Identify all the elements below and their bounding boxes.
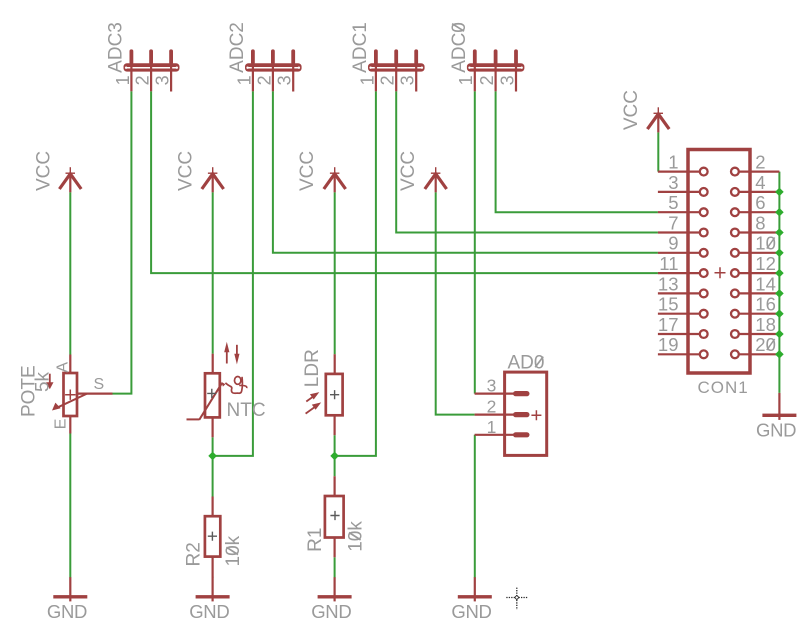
CON1 pin circles row 9 — [700, 330, 708, 338]
svg-text:ADC0: ADC0 — [449, 22, 470, 73]
ADC1 header body — [368, 63, 425, 71]
potentiometer POTE 5k — [18, 355, 112, 434]
R2 bottom pin line — [212, 556, 214, 577]
LDR origin cross — [330, 390, 339, 399]
R2 origin cross — [208, 532, 217, 541]
svg-text:S: S — [94, 376, 105, 393]
svg-text:1: 1 — [357, 75, 377, 85]
wire R1 bottom to GND — [334, 557, 336, 577]
CON1 pin circles row 7 — [700, 290, 708, 298]
ADC2 pin 2 line — [272, 63, 274, 91]
svg-text:VCC: VCC — [33, 151, 54, 191]
CON1 pin 6 line (right) — [738, 211, 779, 213]
power symbol VCC (POTE branch) — [33, 151, 81, 192]
svg-text:VCC: VCC — [398, 151, 419, 191]
junction NTC/R2/ADC2 node — [208, 452, 217, 461]
wire VCC to POTE pin A — [69, 192, 71, 354]
CON1 origin cross — [715, 267, 726, 278]
svg-text:1: 1 — [456, 75, 476, 85]
svg-text:2: 2 — [133, 75, 153, 85]
svg-text:GND: GND — [47, 601, 87, 622]
svg-text:1: 1 — [487, 417, 497, 437]
ADC2 pin 1 line — [252, 63, 254, 91]
svg-text:R2: R2 — [183, 542, 204, 566]
connector AD0 — [475, 353, 547, 456]
svg-text:E: E — [52, 419, 69, 430]
svg-text:5k: 5k — [32, 371, 53, 392]
NTC bottom pin line — [212, 417, 214, 438]
junction GND bus at CON1 pin 12 — [775, 269, 784, 278]
CON1 pin 5 line (left) — [658, 211, 700, 213]
junction LDR/R1/ADC1 node — [330, 452, 339, 461]
3-pin header ADC0 — [449, 22, 524, 91]
thermistor NTC — [187, 342, 266, 438]
wire NTC bottom to R2 top through junction — [212, 437, 214, 496]
AD0 pin 2 line and pad — [475, 414, 514, 416]
CON1 pin 12 line (right) — [738, 272, 779, 274]
svg-text:NTC: NTC — [227, 400, 266, 421]
AD0 origin cross — [531, 410, 541, 420]
svg-text:ADC2: ADC2 — [227, 22, 248, 73]
svg-text:19: 19 — [658, 334, 679, 355]
LDR resistor body — [326, 374, 343, 415]
wire ADC2 pin 2 to CON1 pin 9 — [273, 91, 658, 253]
svg-text:CON1: CON1 — [698, 378, 749, 397]
ADC0 header body — [467, 63, 525, 71]
wire LDR bottom to R1 top through junction — [334, 435, 336, 476]
svg-text:15: 15 — [658, 294, 679, 315]
junction GND bus at CON1 pin 14 — [775, 289, 784, 298]
NTC up arrow — [226, 347, 228, 364]
wire ADC1 pin 2 to CON1 pin 7 — [396, 91, 658, 232]
AD0 pin 1 line and pad — [475, 434, 514, 436]
R1 origin cross — [330, 511, 339, 520]
wire ADC0 pin 1 to AD0 pin 3 — [474, 91, 476, 393]
resistor R2 10k — [183, 497, 244, 578]
NTC top pin line — [212, 354, 214, 375]
svg-text:VCC: VCC — [621, 90, 642, 130]
mouse crosshair cursor — [506, 588, 528, 610]
junction GND bus at CON1 pin 10 — [775, 249, 784, 258]
svg-text:GND: GND — [311, 601, 351, 622]
svg-text:5: 5 — [668, 192, 678, 213]
CON1 pin 1 line (left) — [658, 171, 700, 173]
wire ADC0 pin 2 to CON1 pin 5 — [496, 91, 658, 212]
svg-text:2: 2 — [487, 397, 497, 417]
CON1 pin 10 line (right) — [738, 252, 779, 254]
NTC resistor body — [205, 373, 220, 417]
svg-text:4: 4 — [755, 172, 765, 193]
svg-text:8: 8 — [755, 212, 765, 233]
CON1 pin circles row 8 — [700, 310, 708, 318]
CON1 connector body — [688, 150, 750, 374]
wire CON1 pin 2 to GND bus — [778, 172, 780, 393]
POTE adjustment arrow — [49, 374, 51, 384]
power symbol VCC (AD0 branch) — [398, 151, 446, 192]
POTE wiper arrow — [56, 394, 87, 409]
NTC theta temperature symbol — [235, 377, 241, 385]
CON1 pin 18 line (right) — [738, 333, 779, 335]
CON1 pin 16 line (right) — [738, 313, 779, 315]
CON1 pin 15 line (left) — [658, 313, 700, 315]
CON1 pin 20 line (right) — [738, 353, 779, 355]
R1 top pin line — [334, 476, 336, 496]
CON1 pin circles row 5 — [700, 249, 708, 257]
junction GND bus at CON1 pin 16 — [775, 309, 784, 318]
NTC thermistor diagonal stroke — [199, 383, 222, 420]
CON1 pin 7 line (left) — [658, 231, 700, 233]
svg-text:GND: GND — [756, 419, 796, 440]
wire AD0 pin 1 to GND — [474, 435, 476, 578]
wire VCC to CON1 pin 1 — [657, 132, 659, 171]
svg-text:9: 9 — [668, 233, 678, 254]
svg-text:16: 16 — [755, 294, 776, 315]
ADC3 pin 3 line — [170, 63, 172, 92]
svg-text:3: 3 — [497, 75, 517, 85]
svg-text:11: 11 — [659, 253, 678, 274]
power symbol VCC (LDR branch) — [297, 151, 345, 192]
CON1 pin 9 line (left) — [658, 252, 700, 254]
photoresistor LDR — [302, 349, 343, 435]
LDR top pin line — [334, 354, 336, 374]
wire POTE pin S to ADC3 pin 1 — [113, 91, 132, 393]
svg-text:3: 3 — [398, 75, 418, 85]
junction GND bus at CON1 pin 4 — [775, 188, 784, 197]
ground GND (POTE branch) — [47, 577, 87, 622]
wire junction to ADC1 pin 1 — [335, 91, 376, 456]
CON1 pin 17 line (left) — [658, 333, 700, 335]
wire VCC to AD0 pin 2 — [436, 192, 475, 414]
svg-text:14: 14 — [755, 273, 776, 294]
CON1 pin circles row 2 — [700, 188, 708, 196]
svg-text:LDR: LDR — [302, 349, 323, 387]
R1 bottom pin line — [334, 537, 336, 557]
NTC origin cross — [207, 389, 216, 398]
LDR bottom pin line — [334, 415, 336, 436]
ADC1 pin 1 line — [375, 63, 377, 91]
POTE pin S line — [77, 393, 113, 395]
CON1 pin circles row 1 — [700, 168, 708, 176]
ADC2 pin 3 line — [292, 63, 294, 92]
LDR light arrows — [306, 396, 314, 402]
ground GND (R2 branch) — [189, 577, 229, 622]
POTE origin cross — [65, 390, 75, 400]
CON1 pin 19 line (left) — [658, 353, 700, 355]
R2 resistor body — [205, 516, 220, 556]
power symbol VCC (NTC branch) — [176, 151, 224, 192]
svg-text:2: 2 — [755, 152, 765, 173]
ADC3 pin 1 line — [130, 63, 132, 91]
svg-text:20: 20 — [755, 334, 776, 355]
junction GND bus at CON1 pin 18 — [775, 330, 784, 339]
svg-text:R1: R1 — [305, 528, 326, 552]
CON1 pin circles row 4 — [700, 229, 708, 237]
ADC1 pin 3 line — [415, 63, 417, 92]
CON1 pin circles row 3 — [700, 208, 708, 216]
svg-text:12: 12 — [755, 253, 776, 274]
NTC down arrow — [236, 345, 238, 359]
svg-text:18: 18 — [755, 314, 776, 335]
svg-text:1: 1 — [668, 152, 678, 173]
connector CON1 20-pin header — [658, 150, 780, 398]
CON1 pin 14 line (right) — [738, 292, 779, 294]
R1 resistor body — [325, 496, 344, 538]
POTE pin A line — [69, 355, 71, 375]
CON1 pin 11 line (left) — [658, 272, 700, 274]
svg-text:3: 3 — [275, 75, 295, 85]
svg-text:1: 1 — [113, 75, 133, 85]
resistor R1 10k — [305, 476, 366, 557]
svg-text:3: 3 — [153, 75, 173, 85]
svg-text:VCC: VCC — [176, 151, 197, 191]
CON1 pin 3 line (left) — [658, 191, 700, 193]
junction GND bus at CON1 pin 8 — [775, 228, 784, 237]
svg-text:ADC1: ADC1 — [350, 22, 371, 73]
POTE resistor body — [64, 373, 78, 416]
POTE pin E line — [69, 415, 71, 434]
svg-text:GND: GND — [451, 601, 491, 622]
ADC0 pin 1 line — [474, 63, 476, 91]
ADC3 pin 2 line — [150, 63, 152, 91]
svg-text:GND: GND — [189, 601, 229, 622]
ADC3 header body — [124, 63, 180, 71]
CON1 pin circles row 10 — [700, 350, 708, 358]
svg-text:VCC: VCC — [297, 151, 318, 191]
R2 top pin line — [212, 497, 214, 518]
wire VCC to LDR top — [334, 192, 336, 354]
3-pin header ADC3 — [106, 22, 180, 91]
CON1 pin 8 line (right) — [738, 231, 779, 233]
AD0 connector body — [505, 372, 547, 455]
CON1 pin 4 line (right) — [738, 191, 779, 193]
svg-text:3: 3 — [487, 376, 497, 396]
AD0 pin 3 line and pad — [475, 393, 514, 395]
wire ADC3 pin 2 to CON1 pin 11 — [151, 91, 658, 273]
svg-text:A: A — [55, 362, 72, 373]
svg-text:ADC3: ADC3 — [106, 22, 127, 73]
ADC0 pin 2 line — [495, 63, 497, 91]
svg-text:1: 1 — [234, 75, 254, 85]
ADC1 pin 2 line — [395, 63, 397, 91]
svg-text:10: 10 — [755, 233, 776, 254]
svg-text:3: 3 — [668, 172, 678, 193]
3-pin header ADC1 — [350, 22, 424, 91]
svg-text:7: 7 — [668, 212, 678, 233]
svg-text:2: 2 — [378, 75, 398, 85]
CON1 pin circles row 6 — [700, 269, 708, 277]
ground GND (AD0 branch) — [451, 577, 491, 622]
power symbol VCC (CON1 pin 1) — [621, 90, 669, 132]
svg-text:13: 13 — [658, 273, 679, 294]
CON1 pin 13 line (left) — [658, 292, 700, 294]
svg-text:2: 2 — [254, 75, 274, 85]
junction GND bus at CON1 pin 20 — [775, 350, 784, 359]
svg-text:2: 2 — [477, 75, 497, 85]
ground GND (CON1 bus) — [756, 393, 796, 440]
junction GND bus at CON1 pin 6 — [775, 208, 784, 217]
ground GND (R1 branch) — [311, 577, 351, 622]
ADC2 header body — [245, 63, 302, 71]
CON1 pin 2 line (right) — [738, 171, 779, 173]
wire VCC to NTC top — [212, 192, 214, 353]
3-pin header ADC2 — [227, 22, 301, 91]
wire POTE pin E to GND — [69, 434, 71, 578]
wire junction to ADC2 pin 1 — [213, 91, 253, 456]
svg-text:17: 17 — [658, 314, 679, 335]
svg-text:6: 6 — [755, 192, 765, 213]
ADC0 pin 3 line — [515, 63, 517, 92]
